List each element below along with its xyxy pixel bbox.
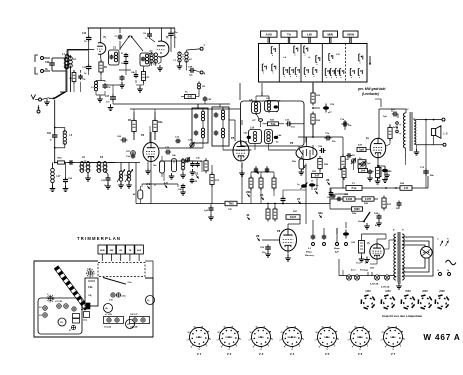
ferrite antenna coils	[79, 156, 91, 172]
capacitor C76	[340, 119, 352, 127]
svg-text:C10: C10	[82, 33, 87, 35]
capacitor C66	[117, 136, 128, 143]
box M30	[352, 207, 363, 215]
node 28	[256, 234, 280, 241]
svg-text:C9 L2A: C9 L2A	[104, 326, 111, 329]
ground	[359, 256, 365, 262]
svg-text:125V: 125V	[385, 290, 391, 293]
wire main bus	[136, 203, 330, 205]
svg-text:V 5: V 5	[325, 352, 330, 356]
wire	[392, 109, 398, 118]
text measure note	[305, 248, 315, 257]
wire	[312, 220, 314, 228]
box R2B	[362, 197, 374, 205]
pot P4	[351, 154, 356, 164]
svg-text:C4j: C4j	[88, 294, 92, 297]
terminal	[396, 122, 402, 135]
wire	[229, 120, 241, 146]
capacitor C4B blob	[244, 132, 252, 144]
svg-text:4µF: 4µF	[335, 251, 339, 254]
box TN5	[225, 201, 237, 211]
wire	[375, 99, 381, 107]
wire	[251, 189, 274, 204]
antenna symbol	[31, 95, 49, 102]
trimmer Cq	[47, 294, 54, 302]
resistor R24	[338, 166, 346, 180]
svg-text:EM80: EM80	[357, 337, 363, 339]
svg-text:1µ9: 1µ9	[359, 148, 364, 152]
capacitor C73	[383, 109, 398, 118]
svg-text:EF89: EF89	[258, 337, 264, 339]
svg-text:C2b: C2b	[122, 296, 127, 298]
ferrite antenna coils 2	[96, 156, 108, 172]
ground	[364, 223, 370, 229]
terminal slider	[252, 114, 263, 123]
wire	[330, 208, 362, 210]
capacitor C8d	[143, 28, 155, 42]
svg-text:6,3V0,3A: 6,3V0,3A	[381, 286, 390, 289]
capacitor 1u blob	[297, 183, 308, 190]
trimmer C41t	[188, 139, 195, 149]
coil L9b	[198, 81, 206, 91]
svg-text:P1a: P1a	[352, 186, 357, 190]
wire	[135, 163, 137, 204]
capacitor C52	[63, 163, 73, 192]
capacitor C5a	[168, 28, 178, 52]
tube V2	[157, 36, 169, 57]
svg-text:C6b: C6b	[318, 146, 323, 148]
svg-text:J-0: J-0	[164, 181, 169, 185]
wire	[433, 136, 435, 145]
svg-text:C7b: C7b	[340, 119, 345, 121]
trimmer pair box B	[130, 313, 150, 329]
circle V2	[126, 320, 135, 329]
tube V7 rectifier	[367, 242, 384, 259]
svg-text:14T: 14T	[346, 158, 350, 161]
transformer output	[403, 109, 415, 151]
trimmer C41	[55, 300, 68, 308]
svg-text:110V: 110V	[365, 290, 371, 293]
resistor R34	[273, 207, 277, 222]
capacitor C4b	[78, 74, 86, 81]
coil box L27	[265, 98, 282, 113]
wire	[149, 126, 151, 142]
svg-text:C4i L2B: C4i L2B	[130, 326, 138, 329]
capacitor C44	[254, 167, 259, 173]
svg-text:EZ80: EZ80	[390, 337, 396, 339]
lamp pilot2	[381, 275, 390, 289]
capacitor C64	[281, 196, 286, 204]
text per MW note	[357, 87, 386, 96]
capacitor C34a variable	[117, 169, 129, 188]
wire	[113, 103, 230, 105]
coil L1	[52, 53, 68, 71]
wire	[197, 104, 199, 109]
wire	[312, 83, 314, 90]
svg-text:C17: C17	[105, 96, 110, 98]
tube socket V1	[187, 326, 212, 356]
resistor R3b tuner	[142, 69, 151, 83]
resistor R72	[210, 172, 220, 187]
capacitor C60	[351, 234, 365, 258]
capacitor C5b	[346, 153, 352, 158]
wire	[261, 83, 263, 92]
capacitor C3P	[186, 60, 195, 76]
resistor 1A7	[318, 156, 329, 171]
svg-text:per. MW gedrückt: per. MW gedrückt	[357, 87, 386, 91]
text TRIMMERPLAN	[77, 236, 121, 241]
wire	[405, 109, 408, 165]
node J0	[164, 181, 169, 188]
svg-text:C29: C29	[45, 61, 50, 64]
svg-text:C7b: C7b	[325, 133, 330, 135]
svg-text:V 6: V 6	[358, 352, 363, 356]
resistor	[377, 165, 381, 179]
capacitor C59	[323, 104, 335, 115]
nested loop mid	[402, 241, 429, 272]
svg-text:C3a: C3a	[88, 286, 93, 289]
wire	[108, 163, 140, 171]
resistor R2	[70, 70, 76, 84]
terminal 4	[343, 230, 349, 246]
box R27	[286, 211, 300, 219]
solder view rosette 240V	[435, 290, 449, 309]
circle Vb	[104, 304, 113, 313]
svg-text:27: 27	[297, 197, 301, 201]
capacitor C29	[45, 58, 55, 71]
svg-text:V 1: V 1	[197, 352, 202, 356]
box 24T	[312, 171, 323, 178]
terminal meas1	[336, 243, 339, 246]
wire	[67, 48, 94, 50]
circle Vy	[146, 296, 155, 305]
switch S1	[49, 91, 65, 99]
text A7	[398, 282, 402, 285]
capacitor C45b	[203, 96, 212, 104]
wire	[283, 190, 306, 196]
wire	[254, 148, 256, 150]
wire	[384, 240, 396, 249]
node 27	[297, 197, 301, 204]
lamp pilot1	[370, 275, 380, 286]
capacitor C44b	[178, 184, 186, 195]
ground	[44, 99, 50, 105]
wire	[329, 188, 331, 204]
svg-text:Mega: Mega	[334, 248, 340, 250]
wire	[160, 161, 202, 163]
coil L3	[91, 81, 98, 91]
ground	[97, 96, 103, 102]
svg-text:EL84: EL84	[324, 336, 330, 339]
node J9b	[146, 182, 151, 189]
svg-text:P8: P8	[277, 229, 281, 233]
svg-text:147: 147	[404, 186, 409, 190]
capacitor C22	[101, 174, 111, 189]
node 26	[260, 193, 264, 200]
node 29	[314, 187, 318, 194]
switch bank key labels	[261, 31, 359, 44]
solder view rosette 150V	[401, 290, 415, 309]
svg-text:EC92: EC92	[196, 337, 202, 339]
svg-text:L1b: L1b	[67, 282, 72, 284]
resistor R23	[263, 120, 285, 127]
resistor R41	[371, 165, 380, 180]
text Ansicht	[382, 314, 423, 318]
svg-text:MW: MW	[110, 250, 114, 252]
wire	[60, 71, 66, 92]
ground	[382, 177, 388, 183]
wire	[342, 137, 344, 188]
terminal 3	[336, 228, 339, 246]
coil box L14	[249, 127, 262, 144]
svg-text:68n: 68n	[430, 175, 434, 177]
pointer line	[103, 278, 132, 285]
resistor R50	[58, 158, 65, 165]
arrow Bp	[446, 239, 450, 247]
ground	[108, 104, 114, 111]
wire	[345, 222, 347, 228]
wire	[362, 233, 387, 235]
capacitor C11	[119, 75, 125, 88]
svg-text:L S: L S	[444, 132, 448, 136]
wire	[136, 66, 144, 92]
resistor R1	[99, 59, 108, 75]
coil box L2b	[249, 100, 261, 114]
svg-text:1476: 1476	[365, 197, 372, 201]
wire	[100, 28, 102, 59]
box C4b osc	[172, 154, 177, 172]
wire	[379, 109, 406, 138]
capacitor C30	[190, 162, 195, 168]
wire	[427, 176, 429, 188]
capacitor c	[367, 169, 373, 181]
switch bank dividers	[279, 44, 345, 83]
trimmer mid1	[72, 307, 76, 311]
box C3a	[85, 278, 98, 306]
svg-text:32e: 32e	[318, 211, 323, 215]
capacitor C45	[265, 167, 270, 173]
wire	[414, 145, 420, 155]
wire	[338, 259, 340, 266]
wire	[396, 283, 402, 290]
wire	[300, 160, 306, 169]
svg-text:R3b: R3b	[352, 213, 357, 215]
svg-text:C47 L27: C47 L27	[130, 313, 139, 316]
svg-text:ECH81: ECH81	[225, 337, 233, 339]
svg-text:MW: MW	[328, 33, 334, 37]
wire	[377, 158, 379, 166]
node 4,5-7	[351, 269, 365, 272]
box pair	[358, 160, 371, 169]
wire	[241, 120, 243, 125]
svg-text:1µb: 1µb	[383, 116, 387, 118]
resistor R36	[311, 112, 321, 127]
capacitor C4d blob	[274, 134, 282, 144]
svg-text:A2T: A2T	[358, 144, 363, 147]
wire	[366, 149, 370, 151]
wire	[312, 86, 314, 92]
svg-text:V 4: V 4	[290, 352, 295, 356]
svg-text:1433: 1433	[346, 197, 353, 201]
resistor R30 tall	[341, 154, 350, 172]
wire	[312, 83, 314, 92]
wire	[211, 165, 213, 204]
capacitor 2T	[121, 53, 128, 58]
switch bank main box	[259, 44, 368, 83]
tube socket V7	[381, 326, 406, 356]
capacitor C3b variable	[125, 169, 133, 188]
box ratio detector	[241, 101, 305, 146]
boxes L1b	[73, 309, 90, 323]
wire	[255, 144, 269, 149]
wire	[145, 132, 151, 174]
wire bus	[298, 136, 343, 138]
svg-text:L7 L1B: L7 L1B	[105, 314, 112, 316]
svg-text:TRIMMERPLAN: TRIMMERPLAN	[77, 236, 121, 241]
wire	[414, 119, 442, 121]
resistor 14b	[153, 156, 165, 177]
text measure note2	[334, 248, 340, 254]
tube V5b output	[366, 136, 386, 158]
capacitor C71	[382, 166, 392, 175]
terminal E	[37, 105, 40, 113]
trimmer C67	[126, 151, 135, 156]
wire	[268, 111, 270, 113]
capacitor C51	[68, 160, 74, 165]
switch	[358, 212, 370, 223]
coil L17	[50, 163, 61, 192]
wire	[292, 123, 304, 125]
tube V6	[277, 229, 297, 251]
capacitor C19	[82, 41, 91, 75]
wire	[66, 50, 88, 56]
pot P1	[346, 183, 362, 191]
coil L2	[69, 56, 77, 92]
svg-text:Tr: Tr	[447, 239, 449, 241]
capacitor C4a blob	[309, 180, 319, 190]
wire	[255, 112, 257, 114]
coil L2	[65, 49, 72, 92]
wire	[413, 118, 415, 120]
wire	[329, 199, 331, 209]
ground	[356, 257, 370, 265]
wire	[377, 165, 385, 167]
svg-text:C3P: C3P	[188, 67, 193, 69]
tube socket V4	[280, 326, 305, 356]
wire	[119, 58, 131, 75]
resistor R3	[200, 158, 208, 173]
wire	[161, 28, 163, 41]
capacitor C7b	[325, 133, 337, 143]
capacitor C62	[327, 191, 333, 199]
svg-text:V 3: V 3	[259, 352, 264, 356]
switch arrow	[369, 56, 371, 65]
wire	[306, 137, 308, 141]
wire	[330, 188, 332, 191]
node 22b	[246, 190, 251, 197]
wire	[256, 114, 261, 128]
wire	[159, 143, 203, 148]
svg-text:150V: 150V	[405, 290, 411, 293]
wire	[256, 166, 267, 172]
coil L4	[150, 52, 153, 66]
svg-text:220V: 220V	[422, 290, 428, 293]
transformer IF1	[192, 108, 208, 143]
wire feedback	[425, 120, 427, 188]
wire	[74, 70, 81, 92]
svg-text:EABC80: EABC80	[288, 336, 297, 339]
wire	[256, 92, 269, 102]
box Pu	[181, 91, 199, 99]
wire	[251, 172, 274, 178]
svg-text:R2b: R2b	[364, 203, 369, 205]
svg-text:Pj: Pj	[104, 36, 107, 39]
coil L8	[183, 52, 192, 62]
wire	[96, 78, 105, 99]
wire	[174, 28, 176, 48]
resistor JuT	[388, 125, 397, 141]
wire	[330, 187, 428, 189]
transformer IF2	[212, 107, 229, 146]
wire	[82, 162, 99, 181]
capacitor C4a	[190, 178, 198, 184]
resistor R4	[128, 118, 136, 134]
wire	[285, 251, 291, 261]
coil L5b	[153, 53, 158, 66]
capacitor C6b	[318, 146, 326, 153]
svg-text:240V: 240V	[439, 290, 445, 293]
wire	[344, 120, 346, 130]
wire	[239, 163, 245, 177]
ground	[180, 172, 186, 178]
wire	[312, 82, 314, 86]
svg-text:Geräf: Geräf	[358, 221, 364, 223]
lamp dial1	[346, 275, 351, 280]
wire	[312, 125, 314, 138]
wire	[261, 92, 263, 96]
svg-text:Miestery: Miestery	[305, 254, 315, 257]
trimmerplan key buttons	[98, 245, 143, 261]
svg-text:31: 31	[195, 172, 199, 176]
svg-text:LW: LW	[119, 250, 122, 252]
dial drive bar	[54, 266, 89, 311]
svg-text:22b: 22b	[246, 190, 251, 194]
circuit block C4	[140, 50, 153, 66]
svg-text:P6: P6	[290, 141, 294, 145]
ground	[375, 178, 381, 184]
nested loop outer	[402, 237, 433, 276]
svg-text:AUS: AUS	[137, 249, 142, 252]
wire	[105, 171, 108, 174]
capacitor C3a	[126, 153, 135, 159]
text W467A	[423, 333, 460, 342]
svg-text:J2: J2	[246, 213, 250, 217]
svg-text:042: 042	[188, 95, 193, 99]
coil L7	[174, 52, 183, 69]
gang arrow	[120, 36, 144, 52]
svg-text:L1B: L1B	[81, 309, 85, 311]
wire	[377, 234, 386, 244]
capacitor C63	[204, 204, 214, 221]
svg-text:V 2: V 2	[227, 352, 232, 356]
resistor R10	[249, 176, 253, 191]
terminal	[442, 118, 446, 146]
wire	[157, 57, 163, 71]
transformer power core	[393, 230, 404, 283]
box R22	[343, 194, 355, 201]
arrow Bi	[438, 239, 444, 247]
wire	[134, 109, 155, 112]
